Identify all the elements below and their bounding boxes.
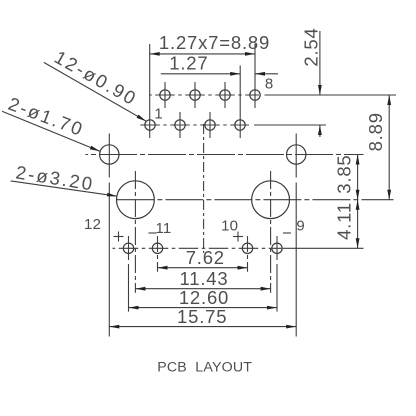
- svg-text:8.89: 8.89: [365, 112, 386, 151]
- svg-text:3.85: 3.85: [333, 154, 354, 193]
- wire: centerline through bottom pin row (pins 1,3,5,7): [139, 124, 250, 126]
- svg-text:7.62: 7.62: [186, 247, 225, 268]
- svg-text:8: 8: [265, 76, 274, 93]
- polarity mark - (pin 11 cathode): [149, 232, 157, 234]
- hole: pin 5 (Ø0.90): [205, 120, 215, 130]
- polarity mark + (pin 12 anode): [114, 236, 124, 238]
- svg-text:12: 12: [84, 216, 101, 233]
- svg-text:11.43: 11.43: [180, 268, 229, 289]
- wire: pin 8 column extension line: [254, 44, 256, 108]
- wire: centerline through mounting holes row: [85, 154, 363, 156]
- hole: right shield mounting hole (Ø1.70): [287, 145, 306, 164]
- leader label 2-Ø3.20 (post holes): [11, 181, 117, 196]
- leader label 12-Ø0.90 (pin holes): [44, 62, 146, 121]
- svg-text:2.54: 2.54: [301, 27, 322, 66]
- dimension 2.54: [319, 31, 321, 95]
- hole: pin 10 (Ø0.90): [242, 243, 252, 253]
- hole: pin 4 (Ø0.90): [190, 90, 200, 100]
- wire: vertical symmetry centerline: [203, 124, 205, 253]
- hole: left shield mounting hole (Ø1.70): [100, 145, 119, 164]
- hole: left snap-in post hole (Ø3.20): [116, 181, 154, 219]
- svg-text:2-ø1.70: 2-ø1.70: [6, 93, 88, 140]
- hole: pin 1 (Ø0.90): [145, 120, 155, 130]
- wire: pin 7 column extension line: [239, 66, 241, 139]
- hole: pin 2 (Ø0.90): [160, 90, 170, 100]
- svg-text:2-ø3.20: 2-ø3.20: [14, 162, 95, 195]
- hole: pin 9 (Ø0.90): [272, 243, 282, 253]
- svg-text:1.27: 1.27: [169, 53, 208, 74]
- dimension 8.89: [388, 95, 390, 200]
- dimension 1.27: [161, 73, 240, 75]
- wire: centerline through LED pin row (pins 12,11,10,9): [113, 247, 283, 249]
- wire: pin 1 extension line: [149, 44, 151, 138]
- dimension 7.62: [158, 267, 248, 269]
- leader label 2-Ø1.70 (mounting holes): [2, 111, 100, 151]
- svg-text:1: 1: [154, 106, 163, 123]
- svg-text:10: 10: [221, 217, 238, 234]
- hole: right snap-in post hole (Ø3.20): [252, 181, 290, 219]
- dimension 11.43: [135, 288, 270, 290]
- polarity mark + (pin 10 anode): [233, 236, 243, 238]
- svg-text:11: 11: [156, 220, 172, 237]
- svg-text:15.75: 15.75: [177, 306, 227, 327]
- dimension 4.11: [357, 200, 359, 249]
- svg-text:4.11: 4.11: [333, 202, 354, 240]
- hole: pin 6 (Ø0.90): [220, 90, 230, 100]
- polarity mark - (pin 9 cathode): [283, 232, 291, 234]
- dimension 1.27x7=8.89: [150, 53, 255, 55]
- wire: centerline through top pin row (pins 2,4,6,8): [149, 94, 259, 96]
- hole: pin 7 (Ø0.90): [235, 120, 245, 130]
- svg-text:12.60: 12.60: [179, 287, 229, 308]
- svg-text:PCB LAYOUT: PCB LAYOUT: [157, 359, 252, 375]
- dimension 15.75: [109, 326, 296, 328]
- dimension 12.60: [129, 307, 278, 309]
- wire: centerline through LED lens holes row: [114, 199, 394, 201]
- hole: pin 12 (Ø0.90): [123, 243, 133, 253]
- hole: pin 11 (Ø0.90): [152, 243, 162, 253]
- wire: right body edge / mounting hole vertical centerline: [295, 134, 297, 178]
- svg-text:9: 9: [296, 217, 305, 234]
- hole: pin 3 (Ø0.90): [175, 120, 185, 130]
- dimension 3.85: [357, 155, 359, 200]
- svg-text:1.27x7=8.89: 1.27x7=8.89: [159, 32, 270, 53]
- wire: left body edge / mounting hole vertical centerline: [108, 134, 110, 178]
- hole: pin 8 (Ø0.90): [250, 90, 260, 100]
- svg-text:12-ø0.90: 12-ø0.90: [51, 46, 141, 109]
